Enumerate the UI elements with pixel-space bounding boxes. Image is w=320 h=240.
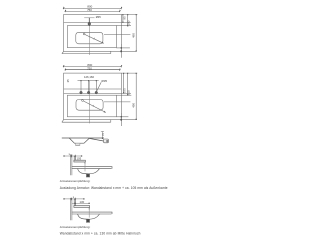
svg-text:Ausladung Armatur: Wandabstand: Ausladung Armatur: Wandabstand x mm + ca… [60, 186, 168, 190]
svg-text:105: 105 [76, 157, 81, 161]
svg-text:750: 750 [87, 8, 92, 12]
svg-text:35: 35 [66, 79, 70, 83]
svg-text:310: 310 [126, 90, 130, 95]
svg-text:Wandabstand x mm + ca. 130 mm: Wandabstand x mm + ca. 130 mm ab Mitte H… [60, 231, 141, 235]
svg-text:490: 490 [131, 103, 135, 108]
svg-text:x: x [73, 195, 75, 199]
svg-text:Armaturenempfehlung:: Armaturenempfehlung: [60, 179, 91, 183]
svg-text:160: 160 [127, 20, 131, 25]
svg-text:95: 95 [123, 16, 127, 20]
svg-text:Armaturenempfehlung:: Armaturenempfehlung: [60, 225, 91, 229]
svg-text:Ø35: Ø35 [96, 15, 102, 19]
svg-text:Ø35: Ø35 [101, 79, 107, 83]
svg-text:490: 490 [132, 33, 136, 38]
svg-text:130: 130 [79, 200, 84, 204]
svg-text:750: 750 [87, 66, 92, 70]
svg-text:126,160: 126,160 [84, 75, 95, 79]
